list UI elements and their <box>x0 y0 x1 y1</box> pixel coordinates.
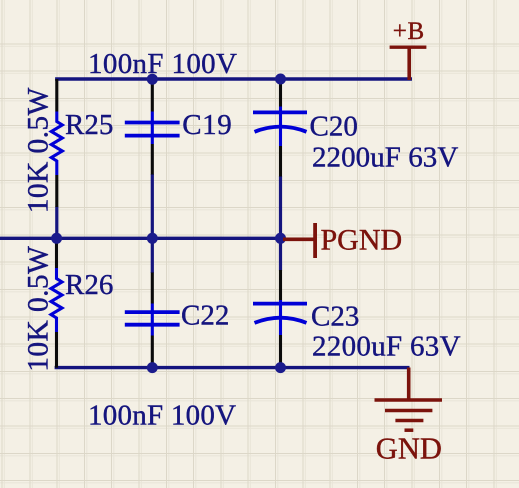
junction bottom C22 <box>147 362 158 373</box>
svg-text:C20: C20 <box>310 111 358 143</box>
capacitor C19 <box>125 79 233 175</box>
junction bottom C23 <box>275 362 286 373</box>
wire middle net <box>0 237 282 240</box>
svg-text:100nF 100V: 100nF 100V <box>88 48 237 80</box>
svg-text:C22: C22 <box>181 300 229 332</box>
svg-text:R25: R25 <box>65 109 113 141</box>
svg-text:+B: +B <box>393 18 425 45</box>
power port PGND <box>283 223 402 258</box>
svg-text:10K 0.5W: 10K 0.5W <box>23 246 55 372</box>
junction top C20 <box>275 74 286 85</box>
svg-text:2200uF 63V: 2200uF 63V <box>312 142 458 174</box>
svg-text:2200uF 63V: 2200uF 63V <box>312 331 461 363</box>
resistor R26 <box>51 238 113 368</box>
power port +B <box>390 18 427 80</box>
capacitor C22 <box>125 273 230 368</box>
resistor R25 <box>51 79 113 207</box>
junction middle C20 <box>275 233 286 244</box>
svg-text:C19: C19 <box>182 109 232 141</box>
ground GND <box>375 368 443 466</box>
wire C22 upper vertical <box>151 238 154 273</box>
svg-text:100nF 100V: 100nF 100V <box>88 399 236 431</box>
wire C19 lower vertical <box>151 174 154 239</box>
svg-text:GND: GND <box>376 432 442 466</box>
svg-text:10K 0.5W: 10K 0.5W <box>23 87 55 213</box>
junction middle R <box>51 233 62 244</box>
capacitor C20 <box>253 79 358 177</box>
svg-text:C23: C23 <box>311 301 359 333</box>
junction top C19 <box>147 74 158 85</box>
svg-text:PGND: PGND <box>321 224 403 257</box>
wire top net <box>55 77 412 80</box>
junction middle C19 <box>147 233 158 244</box>
wire C20 lower vertical <box>279 176 282 239</box>
wire R25 lower vertical <box>55 207 58 240</box>
svg-text:R26: R26 <box>65 269 113 301</box>
capacitor C23 <box>253 270 359 368</box>
wire C23 upper vertical <box>279 238 282 271</box>
wire bottom net <box>55 366 410 369</box>
